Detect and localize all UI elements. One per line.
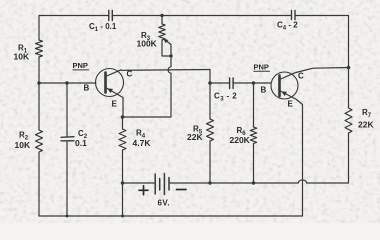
wire: R7 lower lead to mid rail corner xyxy=(348,133,350,183)
wire: R3 bottom lead xyxy=(162,40,171,56)
wire: R6 lower lead xyxy=(253,144,255,184)
wire: left vertical lower segment xyxy=(38,152,40,216)
wire: left vertical middle segment xyxy=(38,57,40,130)
resistor R4 xyxy=(119,129,126,150)
node: C2 branch junction xyxy=(65,81,68,84)
transistor Q1 xyxy=(96,69,124,98)
node: Q1 emitter junction xyxy=(121,115,125,119)
label battery plus sign xyxy=(139,186,148,195)
node: Q2 base / R6 junction xyxy=(252,81,256,85)
resistor R2 xyxy=(36,130,43,152)
capacitor C1 xyxy=(109,11,113,21)
wire: R4 lower lead to bottom rail xyxy=(122,150,124,216)
capacitor C2 xyxy=(61,137,74,141)
node: R3 wiper junction xyxy=(169,54,172,57)
resistor R5 xyxy=(207,119,214,141)
wire: C3 right lead to Q2 base node xyxy=(234,82,271,84)
svg-text:C: C xyxy=(298,72,304,81)
capacitor C3 xyxy=(230,78,234,89)
resistor R7 xyxy=(345,108,352,133)
svg-text:100K: 100K xyxy=(137,39,158,49)
wire: mid rail left (battery +) xyxy=(123,182,155,184)
svg-text:B: B xyxy=(261,86,267,95)
svg-text:B: B xyxy=(84,84,90,93)
wire: Q1 base line xyxy=(39,82,96,84)
wire: R3 to Q1 emitter node (hops over collector line) xyxy=(123,56,172,117)
svg-text:PNP: PNP xyxy=(254,63,269,72)
wire: top rail left segment (Q1 base node to C1) xyxy=(39,15,108,17)
wire: Q2 emitter drop to bottom rail xyxy=(297,100,303,217)
transistor Q2 xyxy=(271,72,298,100)
node: R5 at mid rail xyxy=(208,181,211,184)
svg-text:C: C xyxy=(127,70,133,79)
wire: mid rail right (battery - to right rail, hops over Q2 emitter) xyxy=(170,180,349,183)
node: battery positive junction xyxy=(121,181,124,184)
svg-text:PNP: PNP xyxy=(73,61,88,70)
wire: C2 branch upper xyxy=(66,83,68,137)
svg-text:0.1: 0.1 xyxy=(75,138,87,148)
wire: R6 upper lead xyxy=(253,83,255,127)
node: R4 column at bottom rail xyxy=(121,215,124,218)
battery B1 6V xyxy=(155,174,169,195)
wire: right vertical upper (top rail corner down through collector node) xyxy=(348,16,350,109)
wire: Q1 emitter drop xyxy=(122,98,124,118)
svg-text:6V.: 6V. xyxy=(158,199,170,208)
node: C2 at bottom rail xyxy=(66,215,69,218)
resistor R6 xyxy=(250,127,256,144)
resistor R3 lead from top rail xyxy=(161,16,163,25)
wire: C2 branch lower xyxy=(66,141,68,216)
svg-text:10K: 10K xyxy=(14,52,30,62)
wiper arrow of R3 xyxy=(166,41,171,56)
underline of PNP Q1 xyxy=(73,69,90,71)
wire: bottom rail xyxy=(39,215,303,217)
underline of PNP Q2 xyxy=(253,70,270,72)
wire: Q2 collector run to right rail xyxy=(296,68,349,73)
wire: C3 left lead xyxy=(210,82,229,84)
label battery minus sign xyxy=(177,189,187,191)
svg-text:E: E xyxy=(288,100,294,109)
resistor R1 xyxy=(36,40,43,57)
node: R6 at mid rail xyxy=(252,181,255,184)
wire: R5 lower lead xyxy=(209,141,211,183)
node: C3 branch junction xyxy=(208,81,212,85)
svg-text:10K: 10K xyxy=(15,140,31,150)
wire: top rail right segment (C4 to right corner) xyxy=(296,15,349,17)
resistor R4 lead xyxy=(122,117,124,129)
svg-text:220K: 220K xyxy=(230,135,251,145)
wire: left vertical upper lead xyxy=(38,16,40,41)
wire: collector column down to mid rail xyxy=(209,70,211,120)
node: base line at left rail xyxy=(37,81,40,84)
node: R3 top junction on top rail xyxy=(160,14,163,17)
wire: Q1 collector run xyxy=(121,69,210,72)
svg-text:E: E xyxy=(112,100,118,109)
svg-text:22K: 22K xyxy=(358,120,374,130)
wire: top rail middle segment (C1 to C4) xyxy=(113,15,291,17)
svg-text:22K: 22K xyxy=(187,132,203,142)
resistor R3 xyxy=(159,24,165,40)
node: Q2 collector at right rail xyxy=(347,66,351,70)
capacitor C4 xyxy=(292,11,296,20)
svg-text:4.7K: 4.7K xyxy=(133,138,152,148)
